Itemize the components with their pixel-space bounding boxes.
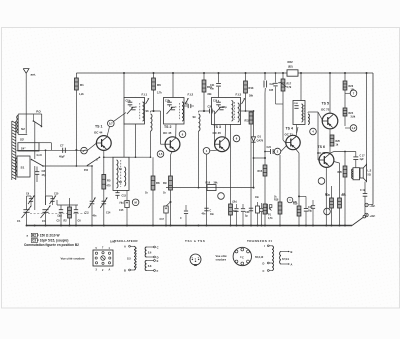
svg-text:F.I.1: F.I.1 [142, 93, 148, 97]
label R21 value [342, 193, 345, 196]
note mark [27, 234, 29, 237]
capacitor C13 [115, 190, 126, 199]
test point TS3 emitter [203, 148, 210, 155]
transistor pinout legend [190, 254, 201, 266]
svg-text:S1: S1 [21, 166, 25, 170]
capacitor C21 [210, 72, 221, 98]
svg-text:R24: R24 [349, 112, 354, 115]
svg-text:100p: 100p [222, 107, 228, 109]
svg-text:1,2k: 1,2k [79, 93, 84, 96]
resistor R17 preset [278, 72, 292, 144]
capacitor C28 [298, 195, 313, 225]
capacitor C19 output [360, 182, 367, 215]
svg-text:R2 = 150 Ω 2/10 W: R2 = 150 Ω 2/10 W [32, 233, 59, 237]
variable capacitor C1 [17, 205, 32, 226]
label R19 value [293, 202, 298, 204]
wire switch output [43, 165, 76, 167]
capacitor C15 [119, 190, 129, 225]
svg-text:5Ω: 5Ω [368, 173, 371, 176]
label R23 value [351, 89, 356, 92]
label G.O [37, 153, 43, 157]
svg-text:F.I.3: F.I.3 [236, 93, 242, 97]
svg-text:C 19: C 19 [360, 189, 366, 192]
winding driver secondary [308, 114, 309, 125]
capacitor FI3 bypass a [231, 204, 239, 226]
wire bottom ground rail [27, 225, 352, 227]
pot wiper box [269, 205, 272, 208]
switch oscillator band [84, 157, 100, 172]
svg-text:R1: R1 [80, 83, 84, 87]
svg-text:Vue côté soudure: Vue côté soudure [61, 256, 86, 260]
capacitor C6 [74, 205, 82, 226]
svg-text:R16: R16 [206, 181, 211, 184]
capacitor mid bypass [180, 205, 188, 226]
oscillator coil S5 S6 [113, 157, 129, 190]
resistor R20 feedback [338, 152, 347, 226]
svg-text:10n: 10n [255, 197, 260, 199]
wire TS4 emitter column [296, 149, 299, 226]
svg-text:C 17: C 17 [360, 155, 366, 158]
wire AVC feedback line [166, 187, 255, 189]
wire oscillator top line [104, 156, 151, 158]
svg-text:R22: R22 [288, 60, 294, 64]
wire TS5 emitter to TS6 [329, 129, 331, 153]
battery terminal plus [365, 213, 376, 218]
capacitor C24 [264, 146, 273, 154]
resistor R25 [330, 135, 340, 146]
svg-text:R17: R17 [287, 83, 292, 86]
transformer FI2 [164, 93, 194, 124]
wire TS1 emitter column [103, 150, 105, 225]
wire S9 bottom to AVC [198, 131, 200, 188]
transistor TS5 [322, 113, 338, 129]
test point oscillator [132, 199, 139, 206]
resistor R12 [229, 204, 238, 215]
svg-text:S7,S.9: S7,S.9 [282, 259, 290, 261]
test point TS4 base [273, 148, 280, 155]
svg-text:C: C [210, 210, 212, 213]
wire FI1 primary tap to oscillator [135, 124, 137, 158]
note R2 value [31, 233, 59, 237]
svg-text:G: G [96, 159, 98, 162]
resistors R23 R24 [343, 72, 354, 126]
wire battery minus feed [368, 204, 373, 206]
speaker LS [360, 164, 372, 181]
wire oscillator feed column [123, 72, 125, 157]
transistor TS1 [96, 136, 111, 151]
svg-text:4,7k: 4,7k [287, 86, 292, 89]
svg-text:R15: R15 [258, 170, 263, 173]
wire mid input line [17, 149, 88, 151]
label osc switch [96, 159, 98, 162]
coil S2 [17, 114, 42, 134]
resistor R11 detector load [245, 111, 253, 226]
svg-text:F.I.2: F.I.2 [188, 93, 194, 97]
trimmer C14 padder [100, 198, 111, 215]
resistor R9 [163, 176, 172, 190]
coil S3 label [20, 137, 25, 141]
svg-text:470: 470 [107, 185, 112, 188]
wire to TS2 base [154, 111, 166, 144]
resistor R1 [75, 73, 85, 166]
label vue cote soudure left [61, 256, 86, 260]
transistor TS3 [215, 137, 230, 152]
test point TS2 collector [179, 131, 186, 138]
resistor R2 [64, 205, 72, 226]
capacitor C7 [59, 144, 65, 159]
winding FI2 secondary S9 [193, 114, 201, 131]
svg-text:S5,6,10: S5,6,10 [255, 256, 264, 259]
label R25 value [336, 144, 339, 147]
label TS4 [285, 127, 294, 137]
junction dots misc [153, 110, 155, 112]
wire FI3 to detector [241, 110, 254, 112]
note commutation [24, 243, 79, 247]
label P.O [36, 110, 41, 114]
wire to TS6 base [318, 112, 319, 160]
resistor R16 [206, 181, 219, 190]
wire driver primary bottom [296, 125, 298, 134]
label C11 value [185, 104, 188, 106]
label C12 value [93, 215, 98, 218]
resistor R10 [202, 72, 212, 112]
label R9 value [163, 192, 166, 195]
wire TS2 collector [175, 124, 177, 138]
label S9 cap value [202, 213, 207, 216]
label vue cote soudure [216, 254, 228, 262]
antenna [23, 69, 29, 134]
test point TS1 collector [108, 120, 115, 127]
svg-text:R11: R11 [245, 120, 250, 123]
capacitor C17 [160, 201, 172, 226]
wire S8 bottom to oscillator line [150, 131, 152, 157]
svg-text:ant.: ant. [31, 72, 37, 76]
label C15 value [120, 202, 124, 205]
wire TS3 collector [224, 125, 226, 138]
label R26 value [325, 193, 328, 196]
label TS2 [163, 125, 172, 135]
svg-text:G.O: G.O [37, 153, 43, 157]
wire osc gang bus [57, 204, 78, 206]
label transfos FI [247, 239, 272, 243]
label TS1 a TS6 [185, 239, 205, 243]
capacitor C23 [245, 208, 253, 217]
resistor R13 [244, 72, 254, 112]
wire TS2 emitter column [171, 152, 173, 226]
svg-text:TS 2: TS 2 [164, 125, 171, 129]
legend winding S5 [124, 245, 136, 273]
transistor TS2 [165, 137, 180, 152]
svg-text:TRANSFOS FI: TRANSFOS FI [247, 239, 272, 243]
svg-text:R20: R20 [338, 171, 343, 174]
svg-text:R23: R23 [349, 85, 354, 88]
wire right edge battery feed [372, 73, 374, 205]
battery terminal minus [365, 203, 376, 208]
svg-text:TS1 à TS6: TS1 à TS6 [185, 239, 205, 243]
svg-text:TS 5: TS 5 [322, 102, 329, 106]
svg-text:R6: R6 [157, 83, 161, 87]
transformer driver [293, 101, 305, 125]
resistor R22 rail series [287, 60, 298, 76]
svg-text:S3': S3' [20, 137, 25, 141]
resistor R19 [293, 203, 301, 217]
svg-text:+9V.: +9V. [370, 214, 376, 218]
svg-text:C24: C24 [267, 146, 272, 149]
wire switch to switch [34, 122, 36, 159]
svg-text:39k: 39k [249, 95, 254, 98]
label R1 value [79, 93, 84, 96]
test point detector [218, 193, 225, 200]
svg-text:C25: C25 [269, 90, 274, 92]
transistor TS4 [286, 135, 300, 149]
winding FI1 secondary S8 [151, 114, 153, 131]
label R5 value [107, 185, 112, 188]
ferrite rod core [12, 121, 16, 180]
svg-text:C10: C10 [54, 193, 59, 196]
label TS6 [317, 145, 326, 155]
wire FI3 ground column [230, 124, 232, 226]
label R17 value [287, 86, 292, 89]
test point TS5 b [345, 125, 357, 132]
capacitor C25 [269, 72, 283, 104]
svg-text:OC 44: OC 44 [94, 131, 103, 135]
FI can pinout legend [233, 247, 251, 265]
wire to TS1 base [87, 143, 96, 150]
svg-text:39k: 39k [214, 181, 219, 184]
wire test point to FI1 [114, 113, 126, 122]
wire to TS5 base [308, 112, 323, 121]
label R13 value [249, 95, 254, 98]
resistor R5 [102, 175, 111, 190]
switch wave-band 2 [31, 159, 44, 167]
gang link dashed [30, 213, 88, 215]
label C21 value [210, 87, 215, 90]
wire AVC shunt [165, 188, 167, 200]
svg-text:OC 72: OC 72 [321, 108, 330, 112]
capacitor coupling TS3 [204, 106, 215, 145]
capacitor extra [311, 200, 315, 226]
label C18 value [210, 213, 215, 216]
svg-text:TS 4: TS 4 [286, 127, 293, 131]
wire detector load column with C22 [264, 72, 275, 226]
test point TS6 emitter [324, 208, 331, 215]
wire TS3 emitter column [207, 150, 219, 226]
wire to TS4 base [281, 146, 287, 152]
wire detector to volume [253, 157, 266, 159]
transformer FI3 [212, 93, 246, 125]
transformer FI1 [124, 93, 149, 124]
resistor R15 [258, 165, 267, 176]
wire stubs [57, 198, 70, 205]
oscillator can pinout [93, 247, 113, 272]
svg-text:C23: C23 [245, 211, 250, 214]
test point emitter [287, 197, 293, 203]
wire TS6 collector to output transformer [330, 151, 356, 154]
test point TS6 a [318, 178, 325, 185]
resistor R18 [274, 155, 282, 226]
label ant. [31, 72, 37, 76]
capacitor FI3 bypass b [241, 204, 245, 226]
coil S1 [16, 156, 30, 177]
label C23 value [255, 197, 260, 199]
switch on-off [352, 215, 366, 225]
resistor R26 [326, 186, 334, 226]
wire trimmer links [27, 196, 53, 205]
transistor TS6 [319, 153, 334, 168]
label TS3 [213, 125, 222, 135]
svg-text:10k: 10k [351, 89, 356, 92]
wire FI2 feed [172, 72, 174, 98]
capacitor C8 [35, 167, 47, 183]
switch wave-band 1 [33, 114, 43, 127]
capacitor TS3 bypass [204, 208, 211, 212]
label TS5 [321, 102, 330, 112]
wire S9 top [199, 111, 205, 113]
wire TS4 collector [296, 127, 298, 136]
svg-text:Commutation figurée en positio: Commutation figurée en position B2 [24, 243, 79, 247]
label C28 value [308, 211, 313, 213]
wire driver transformer feed [300, 72, 302, 101]
test point TS4 collector [310, 128, 317, 135]
svg-text:(2k): (2k) [233, 202, 237, 204]
wire to tuning gang C3 [45, 149, 47, 205]
trimmer C11 padder [85, 165, 96, 225]
screened lead-through [81, 147, 88, 154]
svg-text:C15: C15 [119, 209, 124, 212]
label R18 value [274, 196, 277, 198]
svg-text:C3 = 10pF 5/15, (souple): C3 = 10pF 5/15, (souple) [32, 239, 68, 243]
svg-text:L.S: L.S [368, 170, 372, 173]
svg-text:3,9k: 3,9k [351, 116, 356, 119]
wire S4 to input line [39, 143, 51, 151]
svg-text:2,7k: 2,7k [157, 92, 162, 95]
svg-text:C17: C17 [160, 218, 165, 221]
svg-text:C21: C21 [210, 84, 215, 87]
note 06C [110, 241, 115, 244]
test point TS2 emitter [157, 151, 164, 158]
resistor pot-left [256, 202, 260, 226]
svg-text:4μF: 4μF [360, 158, 365, 161]
wire top supply rail [76, 72, 373, 74]
svg-text:S.5: S.5 [127, 258, 131, 261]
label R8 value [145, 192, 148, 195]
capacitor C5 [57, 205, 64, 226]
svg-text:OC 45: OC 45 [213, 131, 222, 135]
resistor R6 [152, 72, 161, 112]
capacitor neutralizing [184, 102, 194, 108]
label R6 value [157, 92, 162, 95]
label C20 value [222, 107, 228, 109]
wire output feed [366, 72, 368, 165]
legend FI winding secondary [280, 250, 293, 267]
node R1-input junction [75, 149, 77, 151]
capacitor pot-left [260, 203, 264, 226]
potentiometer P1 volume [263, 204, 273, 220]
resistor R27 feedback [334, 162, 347, 226]
trimmer C2 [26, 193, 35, 206]
diode D1 [251, 111, 263, 188]
svg-text:50μ: 50μ [308, 211, 313, 213]
label R12 value [233, 202, 237, 204]
svg-text:A: A [109, 268, 111, 271]
capacitor C17 output [353, 152, 365, 168]
resistor R8 [151, 157, 160, 225]
svg-text:TS 3: TS 3 [214, 125, 221, 129]
legend FI winding primary [255, 244, 274, 273]
svg-text:TS 1: TS 1 [95, 125, 102, 129]
wire TS5 collector feed [329, 72, 331, 113]
wire TS1 collector to test point [107, 127, 110, 137]
test point TS3 collector [233, 135, 240, 142]
wire S8 top [146, 110, 154, 113]
label R10 value [208, 93, 213, 96]
svg-text:S2: S2 [21, 127, 25, 131]
svg-text:C11: C11 [85, 212, 90, 215]
label oscillateur [114, 239, 138, 243]
trimmer C4 [50, 193, 60, 206]
label TS1 [94, 125, 103, 135]
svg-text:TS 6: TS 6 [318, 145, 325, 149]
svg-text:OC 45: OC 45 [163, 131, 172, 135]
variable capacitor C3 [41, 206, 51, 226]
svg-text:82k: 82k [208, 93, 213, 96]
label R24 value [351, 116, 356, 119]
svg-text:R25: R25 [336, 140, 341, 143]
wire to tuning gang C1 [34, 166, 36, 210]
svg-text:C: C [242, 256, 244, 259]
svg-text:P.O: P.O [36, 110, 41, 114]
svg-text:40pF: 40pF [59, 156, 65, 159]
wire switch pivot line [76, 165, 92, 167]
svg-text:OSCILLATEUR: OSCILLATEUR [114, 239, 138, 243]
transformer output [352, 168, 360, 180]
label C5 value [58, 216, 62, 218]
svg-text:R18: R18 [274, 199, 279, 202]
wire TS6 emitter column [325, 167, 327, 225]
legend windings S6 S8 [145, 246, 159, 274]
coil S4 [18, 143, 39, 151]
svg-text:OA79: OA79 [257, 139, 264, 142]
junction dots bottom rail [26, 225, 28, 227]
svg-text:C13: C13 [122, 195, 127, 198]
svg-text:C14: C14 [106, 212, 111, 215]
test point TS5 a [345, 90, 357, 97]
svg-text:(3p): (3p) [58, 216, 62, 218]
note C3 value [31, 239, 68, 243]
